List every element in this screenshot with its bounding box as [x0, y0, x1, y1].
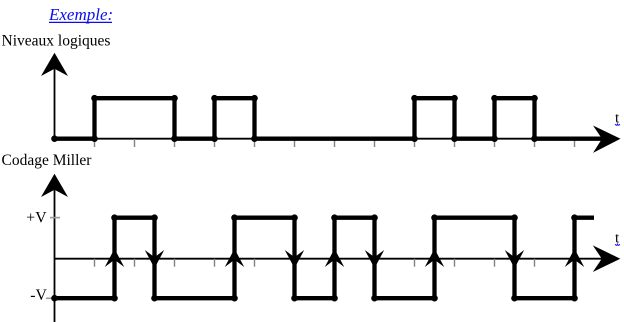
svg-text:+V: +V — [26, 209, 47, 226]
chart1 t squiggle — [615, 124, 619, 125]
chart2 -V level tick — [46, 297, 52, 299]
chart1 axis ticks — [95, 139, 575, 147]
chart2 x-axis arrowhead — [593, 245, 621, 272]
chart2 x-axis line — [55, 258, 603, 260]
chart2 axis ticks — [95, 259, 575, 267]
svg-text:Codage Miller: Codage Miller — [2, 152, 93, 169]
chart2 +V level tick — [50, 217, 60, 219]
chart1 x-axis arrowhead — [593, 126, 621, 153]
chart1 y-axis line — [54, 62, 56, 139]
chart2 node dots — [51, 214, 578, 301]
chart2 y-axis line — [54, 183, 56, 322]
chart2 y-axis arrowhead — [41, 174, 68, 197]
chart2 transition up-arrows — [105, 249, 584, 267]
chart2 Miller waveform — [55, 218, 595, 299]
svg-text:Niveaux logiques: Niveaux logiques — [2, 32, 111, 49]
title underline — [49, 21, 112, 23]
chart2 t squiggle — [615, 244, 619, 245]
chart2 transition down-arrows — [145, 250, 524, 268]
svg-text:-V: -V — [30, 287, 47, 304]
chart1 y-axis arrowhead — [41, 53, 68, 76]
chart1 x-axis line — [55, 138, 601, 140]
chart1 logic waveform — [55, 98, 604, 139]
svg-text:Exemple:: Exemple: — [48, 5, 113, 24]
chart1 node dots — [51, 95, 538, 142]
